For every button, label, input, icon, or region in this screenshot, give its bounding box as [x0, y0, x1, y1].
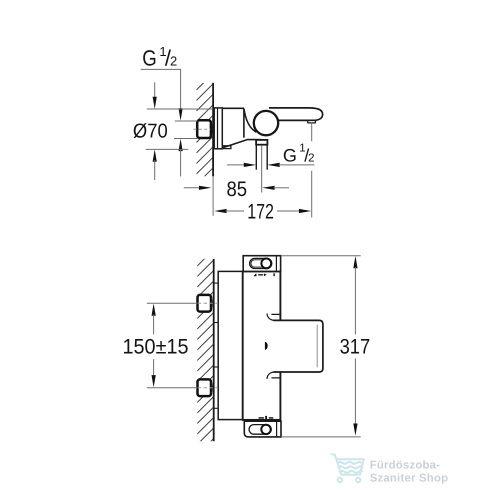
node cartridge circle top view: [254, 111, 278, 135]
svg-text:2: 2: [170, 54, 177, 69]
svg-text:Fürdöszoba-: Fürdöszoba-: [370, 459, 441, 471]
wire wall edge bottom view: [213, 259, 215, 441]
svg-text:172: 172: [247, 201, 274, 224]
wire rail clip tick 3: [214, 366, 219, 368]
node arrow G1/2 left-point: [267, 163, 279, 167]
node bottom cap bottom view: [244, 421, 281, 437]
wire wall extension line top view: [212, 176, 214, 215]
node arrow G1/2 up: [179, 139, 183, 151]
wire shower pipe top view: [255, 145, 257, 170]
wire dim 317 vertical lower: [354, 358, 356, 425]
node faucet body top view: [222, 108, 262, 148]
wire handle inner edge line: [316, 325, 318, 368]
node arrow G1/2 down: [179, 108, 183, 120]
node arrow O70 up: [153, 149, 157, 161]
node mounting rail bottom view: [218, 271, 243, 419]
node aerator nub top view: [308, 121, 316, 123]
wire dim G1/2 top leader: [141, 69, 181, 110]
node escutcheon foot top view: [222, 146, 231, 149]
wire dim line nut top edge: [175, 120, 198, 122]
node top cap bottom view: [243, 256, 280, 272]
wire dim 172 left segment: [226, 210, 245, 212]
wire dim O70 vertical upper: [154, 82, 156, 99]
node shop logo cart: [332, 454, 364, 482]
wire rosette inner edge: [217, 108, 219, 148]
node bottom centre marks: [259, 416, 274, 420]
wire rail clip tick 2: [214, 322, 219, 324]
wire pipe centerline top view: [261, 145, 263, 193]
node dim G1/2 right text: [283, 142, 315, 165]
wire dim G1/2 right left segment: [227, 164, 245, 166]
node thermostat body bottom view: [243, 271, 281, 420]
node nut lower bulge: [211, 381, 212, 394]
wire dim O70 vertical lower: [154, 160, 156, 180]
wire rail clip tick 1: [214, 282, 219, 284]
node rosette escutcheon top view: [214, 108, 222, 149]
wire nut upper dashed centerline: [198, 302, 218, 304]
node arrow 172 left-point: [214, 209, 226, 213]
wire dim 150 bottom line: [147, 387, 198, 389]
wire dim 150 vertical lower: [153, 359, 155, 376]
wire dim O70 top line: [147, 108, 213, 110]
node dim G1/2 top text: [142, 44, 177, 71]
node arrow G1/2 right-point: [244, 163, 256, 167]
node supply nut lower bottom view: [198, 379, 212, 396]
node arrow 317 up: [353, 256, 357, 268]
wire nut lower dashed centerline: [198, 387, 218, 389]
wire nut dashed centerline top view: [193, 128, 210, 130]
svg-text:150±15: 150±15: [123, 335, 189, 358]
svg-text:Szaniter Shop: Szaniter Shop: [370, 473, 449, 485]
node safestop crescent: [265, 342, 268, 350]
node arrow O70 down: [153, 97, 157, 109]
node handle knob bottom view: [274, 320, 323, 372]
wire dim O70 bottom line: [146, 148, 189, 150]
wire dim 85 right segment: [274, 187, 290, 189]
wire dim line nut bottom edge: [174, 138, 197, 140]
node arrow 85 right-point: [199, 186, 211, 190]
wire wall hatch bottom view: [197, 249, 214, 465]
wire dim G1/2 underline: [279, 164, 315, 166]
node arrow 150 down: [152, 375, 156, 387]
node nut bulge top view: [211, 122, 212, 136]
wire bottom cap divider: [276, 421, 278, 437]
node top cap circle: [261, 259, 271, 269]
wire wall hatch top view: [196, 73, 213, 195]
node arrow 172 right-point: [299, 209, 311, 213]
node top cap pill inner: [251, 260, 265, 267]
node handle top tab: [267, 314, 280, 321]
wire dim G1/2 lower extension: [180, 150, 182, 177]
wire dim 150 vertical upper: [153, 315, 155, 335]
wire dim 317 bottom extension: [281, 436, 361, 438]
node arrow 85 left-point: [262, 186, 274, 190]
svg-text:G: G: [283, 146, 297, 166]
wire aerator leader lower extension: [311, 171, 313, 218]
wire dim 172 right segment: [277, 210, 300, 212]
svg-text:Ø70: Ø70: [133, 120, 168, 142]
svg-text:G: G: [142, 46, 157, 71]
node top scale marks: [253, 273, 274, 276]
node supply nut upper bottom view: [198, 295, 212, 312]
node bottom cap pill: [249, 425, 271, 435]
node spout bar top view: [269, 108, 323, 121]
wire dim 317 vertical upper: [354, 267, 356, 334]
node handle bottom tab: [267, 372, 280, 379]
node arrow 317 down: [353, 424, 357, 436]
wire dim 317 top extension: [281, 255, 361, 257]
wire wall edge top view: [212, 83, 214, 177]
wire dim 85 left segment: [184, 187, 200, 189]
node bottom cap circle: [261, 425, 270, 434]
wire rail clip tick 4: [214, 407, 219, 409]
node pipe collar top view: [256, 140, 267, 145]
svg-text:2: 2: [308, 153, 314, 165]
node union nut top view: [197, 120, 211, 138]
svg-text:317: 317: [340, 336, 371, 359]
wire aerator leader upper: [311, 123, 313, 142]
wire top cap divider: [275, 256, 277, 272]
svg-text:85: 85: [227, 178, 248, 201]
wire dim 150 top line: [147, 302, 198, 304]
node nut upper bulge: [211, 297, 212, 310]
node arrow 150 up: [152, 304, 156, 316]
node top cap pill: [250, 258, 272, 268]
